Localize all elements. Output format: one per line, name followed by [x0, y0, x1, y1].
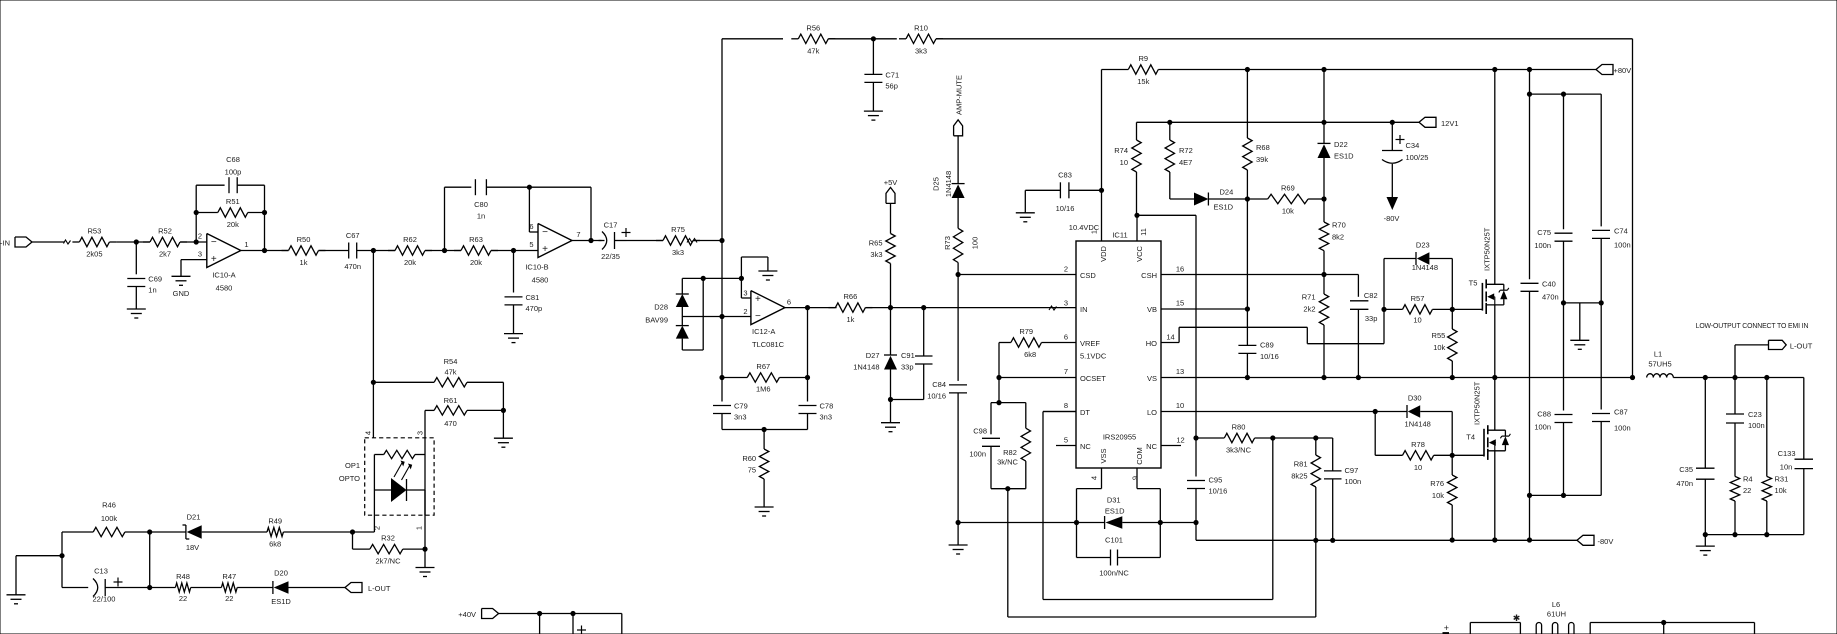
wire feedback left vertical: [195, 185, 197, 242]
wire HO riser: [1383, 259, 1385, 344]
resistor R81: [1291, 438, 1320, 540]
node C13 R48 junction: [131, 585, 175, 590]
svg-text:CSH: CSH: [1141, 271, 1157, 280]
svg-text:HO: HO: [1146, 339, 1157, 348]
svg-text:R79: R79: [1019, 327, 1033, 336]
svg-text:D20: D20: [274, 569, 288, 578]
svg-text:OCSET: OCSET: [1080, 374, 1106, 383]
node CSH R70: [1321, 272, 1326, 277]
node C40 col top: [1527, 67, 1532, 72]
node VB junction: [1245, 306, 1250, 311]
inductor L1 57UH5: [1647, 350, 1674, 378]
capacitor C71: [864, 70, 899, 90]
svg-text:10k: 10k: [1775, 486, 1787, 495]
svg-text:IC12-A: IC12-A: [752, 327, 775, 336]
node R67 left: [719, 375, 724, 380]
diode D27 1N4148: [853, 308, 897, 400]
wire C40 bottom: [1529, 291, 1531, 495]
tick mark after R75: [687, 239, 697, 243]
svg-text:57UH5: 57UH5: [1648, 360, 1671, 369]
svg-text:R61: R61: [444, 396, 458, 405]
diode D24 ES1D: [1170, 188, 1248, 212]
wire D31 rail left: [958, 522, 1076, 524]
node D22 col top: [1321, 67, 1326, 72]
wire D27 bottom to ground: [890, 400, 892, 423]
svg-text:+40V: +40V: [458, 610, 476, 619]
wire OCSET line: [999, 377, 1076, 379]
resistor R67: [747, 362, 779, 394]
resistor R57: [1384, 294, 1452, 325]
wire T5 drain: [1494, 70, 1496, 285]
terminal -80V flag: [1577, 535, 1613, 546]
svg-text:1M6: 1M6: [756, 385, 771, 394]
svg-text:R51: R51: [226, 197, 240, 206]
svg-text:33p: 33p: [1365, 314, 1378, 323]
op-amp IC10-A: [198, 232, 249, 293]
svg-text:470n: 470n: [1542, 292, 1559, 301]
wire top line left segment: [722, 38, 783, 40]
node D junction: [719, 238, 724, 243]
ground under C83: [1016, 213, 1035, 222]
svg-text:R62: R62: [403, 235, 417, 244]
wire R67 left lead: [722, 377, 747, 379]
wire R62 to node C: [425, 250, 461, 252]
opto LED: [374, 455, 425, 516]
svg-text:R68: R68: [1256, 143, 1270, 152]
capacitor C81: [505, 293, 543, 313]
capacitor C82: [1350, 291, 1378, 323]
svg-text:C74: C74: [1614, 226, 1628, 235]
svg-text:12V1: 12V1: [1441, 119, 1459, 128]
wire DT to loop: [1043, 412, 1273, 600]
svg-text:TLC081C: TLC081C: [752, 340, 785, 349]
svg-text:3n3: 3n3: [734, 413, 747, 422]
svg-text:100n: 100n: [1345, 477, 1362, 486]
transistor T4 IXTP50N25T: [1466, 381, 1510, 460]
ground under C69: [127, 309, 146, 318]
resistor R68: [1243, 70, 1270, 200]
wire R68 node to VB: [1246, 199, 1248, 309]
wire opto pin1 down: [424, 490, 426, 549]
svg-text:T5: T5: [1469, 279, 1478, 288]
node R67 right: [805, 308, 810, 381]
svg-text:4580: 4580: [216, 284, 233, 293]
svg-text:ES1D: ES1D: [271, 597, 291, 606]
resistor R78: [1403, 440, 1434, 472]
node IC10-A output: [262, 248, 267, 253]
svg-text:6: 6: [787, 298, 791, 307]
capacitor C87: [1592, 408, 1631, 433]
wire C75 column upper: [1563, 94, 1565, 229]
resistor R76: [1430, 455, 1457, 540]
wire pin5 NC stub: [1056, 445, 1076, 447]
resistor R75: [656, 225, 700, 257]
svg-text:15k: 15k: [1137, 77, 1149, 86]
node A junction: [134, 239, 139, 244]
node R81 top: [1313, 435, 1318, 440]
node left gnd tee: [59, 553, 64, 558]
svg-text:R75: R75: [671, 225, 685, 234]
svg-text:L1: L1: [1654, 350, 1662, 359]
capacitor C67: [344, 231, 361, 271]
svg-text:C34: C34: [1406, 141, 1420, 150]
resistor R69: [1247, 184, 1308, 216]
svg-text:R54: R54: [444, 357, 458, 366]
resistor R10: [899, 23, 943, 55]
svg-text:5: 5: [529, 240, 533, 249]
wire C87 bottom: [1530, 422, 1602, 496]
wire L6 right net: [1590, 623, 1754, 634]
svg-text:1n: 1n: [477, 212, 485, 221]
wire R73 node down to C84: [957, 275, 959, 381]
svg-text:2k7: 2k7: [159, 250, 171, 259]
node OCSET: [996, 375, 1001, 380]
svg-text:22: 22: [225, 594, 233, 603]
resistor R62: [388, 235, 432, 267]
svg-text:100n: 100n: [1614, 240, 1631, 249]
wire C71 to ground: [872, 82, 874, 111]
op-amp IC12-A: [743, 289, 791, 350]
svg-text:D24: D24: [1220, 188, 1234, 197]
svg-text:✱: ✱: [1513, 613, 1521, 623]
svg-text:R66: R66: [844, 292, 858, 301]
wire 12V1 rail: [1137, 121, 1420, 123]
node C40 branch: [1527, 92, 1532, 97]
resistor R79: [999, 327, 1076, 359]
wire R53 to node A: [116, 241, 149, 243]
svg-text:R56: R56: [806, 23, 820, 32]
wire C98 R82 top split: [991, 403, 1026, 435]
wire R61 right lead: [467, 409, 503, 411]
svg-text:BAV99: BAV99: [645, 316, 668, 325]
svg-text:IC11: IC11: [1112, 231, 1127, 240]
svg-text:10/16: 10/16: [1056, 204, 1075, 213]
capacitor C74: [1592, 226, 1631, 249]
svg-text:47k: 47k: [807, 46, 819, 55]
svg-text:10: 10: [1413, 316, 1421, 325]
node T4 gate: [1450, 453, 1455, 458]
capacitor C23: [1726, 378, 1765, 431]
svg-text:ES1D: ES1D: [1105, 507, 1125, 516]
svg-text:1: 1: [1090, 230, 1099, 234]
node pin2 junction: [194, 239, 199, 244]
node R71 VS: [1321, 375, 1326, 380]
svg-text:C17: C17: [604, 221, 618, 230]
wire rail to IC12 ground: [741, 257, 768, 278]
wire C87 column: [1600, 303, 1602, 410]
wire DT pin line: [1043, 411, 1076, 413]
wire tee to ground: [16, 556, 62, 595]
wire VB line: [1161, 308, 1247, 310]
node T5 source VS: [1492, 375, 1497, 380]
svg-text:10/16: 10/16: [1260, 352, 1279, 361]
wire LO line: [1161, 411, 1407, 413]
wire R67 left riser: [721, 317, 723, 402]
svg-text:22/100: 22/100: [93, 595, 116, 604]
svg-text:D22: D22: [1334, 140, 1348, 149]
wire C82 to VS: [1357, 309, 1359, 377]
resistor R73: [943, 228, 980, 262]
svg-text:5: 5: [1064, 436, 1068, 445]
wire R67 right lead: [779, 377, 807, 379]
wire C68 to right vertical: [237, 185, 264, 250]
svg-text:R47: R47: [222, 572, 236, 581]
resistor R80: [1196, 423, 1273, 455]
star mark transformer: [1513, 613, 1521, 623]
svg-text:3k3: 3k3: [915, 46, 927, 55]
svg-text:3: 3: [416, 431, 425, 435]
svg-text:R76: R76: [1430, 479, 1444, 488]
diode D22 ES1D: [1318, 70, 1355, 200]
svg-text:100: 100: [971, 237, 980, 250]
ground under R61: [494, 438, 513, 447]
node B junction: [371, 248, 376, 253]
svg-text:14: 14: [1166, 333, 1174, 342]
svg-text:VCC: VCC: [1135, 246, 1144, 262]
svg-text:R74: R74: [1114, 146, 1128, 155]
svg-text:R55: R55: [1432, 331, 1446, 340]
diode D31 ES1D: [1077, 496, 1197, 530]
wire C75 to gnd rail: [1563, 241, 1565, 303]
wire VDD riser to R9: [1101, 70, 1103, 191]
node R31 bottom: [1764, 532, 1769, 537]
svg-text:20k: 20k: [470, 258, 482, 267]
wire C88 column: [1563, 303, 1565, 411]
wire R78 to gate node: [1434, 454, 1484, 456]
resistor R4: [1730, 423, 1752, 535]
svg-text:10: 10: [1176, 401, 1184, 410]
svg-text:L-OUT: L-OUT: [1790, 341, 1813, 350]
node pin5 junction: [511, 248, 516, 253]
svg-text:1N4148: 1N4148: [944, 171, 953, 197]
svg-text:C89: C89: [1260, 340, 1274, 349]
ground under opto: [416, 568, 435, 577]
svg-text:R73: R73: [943, 236, 952, 250]
svg-text:1: 1: [415, 526, 424, 530]
wire R48 to R47: [191, 587, 222, 589]
svg-text:DT: DT: [1080, 408, 1090, 417]
node C98 R82 top: [996, 400, 1001, 405]
resistor R51: [218, 197, 248, 229]
capacitor C35: [1676, 378, 1714, 535]
node R32 opto pin1: [422, 547, 427, 552]
wire junction to opto pin2: [353, 531, 375, 533]
svg-text:20k: 20k: [404, 258, 416, 267]
resistor R82: [997, 428, 1030, 466]
terminal +40V flag: [458, 609, 622, 620]
wire rail down to pin 3: [741, 278, 751, 298]
svg-text:15: 15: [1176, 299, 1184, 308]
svg-text:D31: D31: [1107, 496, 1121, 505]
wire COM pin drop: [1137, 468, 1160, 558]
resistor R52: [143, 227, 187, 259]
svg-text:4580: 4580: [532, 276, 549, 285]
wire pin1 VDD stub: [1101, 190, 1103, 241]
wire C67 to node B: [357, 250, 396, 252]
node R80 left: [1193, 435, 1198, 440]
diode D20 ES1D: [271, 569, 345, 606]
svg-text:C79: C79: [734, 402, 748, 411]
node top riser VS: [1630, 375, 1635, 380]
wire C74 to gnd rail: [1600, 238, 1602, 303]
svg-text:3: 3: [743, 289, 747, 298]
svg-text:ES1D: ES1D: [1214, 203, 1234, 212]
node R51 left: [194, 210, 199, 215]
svg-text:R63: R63: [469, 235, 483, 244]
wire node A down to C69: [135, 242, 137, 274]
svg-text:2k2: 2k2: [1303, 305, 1315, 314]
svg-text:100n/NC: 100n/NC: [1099, 569, 1129, 578]
wire R52 to pin 2: [181, 241, 207, 243]
text LOW-OUTPUT note: [1696, 323, 1809, 330]
tick mark at IC11 IN pin: [1049, 306, 1057, 310]
wire mid gnd rail: [1564, 302, 1602, 304]
ground at IC12 pin3: [758, 271, 777, 280]
wire CSH elbow to C82: [1357, 275, 1359, 297]
capacitor C75: [1534, 228, 1572, 250]
svg-text:R65: R65: [869, 239, 883, 248]
node C40 minus rail: [1527, 493, 1532, 498]
wire node B down: [372, 251, 374, 438]
svg-text:12: 12: [1176, 436, 1184, 445]
wire C71 drop: [872, 39, 874, 75]
wire bottom v2 down: [572, 614, 574, 634]
svg-text:47k: 47k: [444, 367, 456, 376]
wire right riser down to output line: [1632, 39, 1634, 378]
svg-text:C91: C91: [901, 351, 915, 360]
svg-text:IC10-B: IC10-B: [525, 263, 548, 272]
svg-text:11: 11: [1139, 228, 1148, 236]
svg-text:C82: C82: [1364, 291, 1378, 300]
svg-text:C13: C13: [94, 567, 108, 576]
svg-text:18V: 18V: [186, 543, 199, 552]
wire IC10-B output: [572, 240, 602, 242]
svg-text:C68: C68: [226, 155, 240, 164]
node R4 bottom: [1732, 532, 1737, 537]
node VCC tap: [1134, 213, 1139, 218]
wire HO jog: [1161, 327, 1384, 343]
node D21 left: [147, 529, 152, 534]
svg-text:470p: 470p: [526, 304, 543, 313]
svg-text:8: 8: [1064, 401, 1068, 410]
node C35 top: [1703, 375, 1708, 380]
wire VCC branch to riser: [1137, 215, 1196, 438]
svg-text:33p: 33p: [901, 363, 914, 372]
wire output gnd stem: [1704, 535, 1706, 547]
wire T4 source: [1494, 451, 1496, 540]
node C junction: [442, 248, 447, 253]
svg-text:3k3: 3k3: [672, 248, 684, 257]
svg-text:470n: 470n: [344, 262, 361, 271]
terminal 12V1 flag: [1419, 117, 1459, 128]
node LO split: [1373, 409, 1378, 414]
resistor R49: [267, 517, 283, 549]
diode D23 1N4148: [1384, 240, 1452, 309]
resistor R31: [1762, 378, 1788, 535]
svg-text:C80: C80: [474, 200, 488, 209]
wire CSD to IC11: [958, 274, 1076, 276]
svg-text:OPTO: OPTO: [339, 474, 360, 483]
svg-text:C35: C35: [1679, 465, 1693, 474]
terminal +80V flag: [1596, 65, 1631, 76]
svg-text:D25: D25: [932, 177, 941, 191]
resistor R63: [454, 235, 498, 267]
wire op-amp output: [241, 250, 289, 252]
svg-text:1N4148: 1N4148: [1412, 263, 1438, 272]
resistor R60: [742, 449, 768, 479]
wire R51 right lead: [248, 212, 265, 214]
wire bottom v1 down: [539, 614, 541, 634]
svg-text:R48: R48: [176, 572, 190, 581]
wire R32 right lead: [403, 548, 425, 550]
svg-text:100p: 100p: [225, 168, 242, 177]
node HO R57: [1381, 307, 1386, 312]
svg-text:C98: C98: [973, 427, 987, 436]
wire riser to C95: [1195, 438, 1197, 477]
svg-text:3: 3: [1064, 299, 1068, 308]
svg-text:10n: 10n: [1780, 463, 1793, 472]
wire R61 gnd stem: [502, 410, 504, 438]
wire R51 left lead: [196, 212, 218, 214]
wire R47 to D20: [237, 587, 273, 589]
diode D28 BAV99 lower: [645, 303, 689, 351]
svg-text:4: 4: [1090, 476, 1099, 480]
ground output filter: [1696, 546, 1715, 555]
node VSS D31: [1074, 520, 1079, 525]
opto OP1 dashed box: [339, 431, 434, 530]
node C75 top: [1561, 92, 1566, 97]
svg-text:R46: R46: [102, 501, 116, 510]
node R31 top: [1764, 375, 1769, 380]
resistor R47: [221, 572, 237, 603]
svg-text:L6: L6: [1552, 600, 1560, 609]
terminal -IN input flag: [0, 237, 65, 248]
svg-text:-80V: -80V: [1598, 537, 1614, 546]
svg-text:R71: R71: [1302, 293, 1316, 302]
wire VS line: [1161, 377, 1633, 379]
node BAV99 clamp tie: [701, 276, 706, 281]
svg-text:VSS: VSS: [1099, 448, 1108, 463]
wire L1 to output node: [1673, 377, 1804, 379]
capacitor C13 electrolytic: [93, 567, 131, 604]
wire R65 to main line: [890, 264, 892, 308]
resistor R50: [282, 235, 326, 267]
svg-text:C75: C75: [1537, 228, 1551, 237]
wire VREF loop: [1008, 489, 1316, 617]
node D24 R69 junction: [1245, 196, 1250, 201]
svg-text:2k7/NC: 2k7/NC: [375, 557, 401, 566]
svg-text:C87: C87: [1614, 408, 1628, 417]
svg-text:100n: 100n: [1748, 421, 1765, 430]
svg-text:100/25: 100/25: [1406, 153, 1429, 162]
wire C98 R82 bottom join: [991, 446, 1026, 488]
svg-text:R81: R81: [1294, 460, 1308, 469]
svg-text:−: −: [542, 227, 548, 238]
node R80 right: [1270, 435, 1275, 440]
svg-text:COM: COM: [1135, 447, 1144, 465]
svg-text:10/16: 10/16: [927, 391, 946, 400]
terminal L-OUT bottom flag: [345, 583, 391, 594]
wire pin11 VCC stub: [1136, 215, 1138, 241]
plus mark far corner: [1443, 623, 1450, 633]
ground under C84: [949, 545, 968, 554]
svg-text:6k8: 6k8: [269, 540, 281, 549]
node C84 gnd rail: [956, 520, 961, 525]
node R72 top: [1167, 120, 1172, 125]
capacitor C40: [1521, 279, 1559, 301]
svg-text:R70: R70: [1332, 221, 1346, 230]
wire C88 bottom: [1563, 423, 1565, 496]
